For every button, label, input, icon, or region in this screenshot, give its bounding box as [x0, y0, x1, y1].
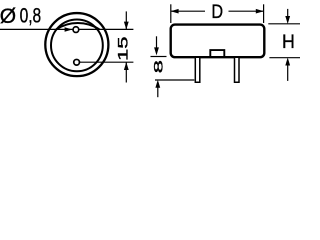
- svg-text:0,8: 0,8: [20, 3, 42, 27]
- svg-text:Ø: Ø: [0, 5, 16, 28]
- svg-text:H: H: [282, 30, 295, 52]
- svg-text:8: 8: [151, 60, 164, 73]
- svg-text:D: D: [211, 0, 223, 22]
- svg-text:15: 15: [115, 36, 131, 61]
